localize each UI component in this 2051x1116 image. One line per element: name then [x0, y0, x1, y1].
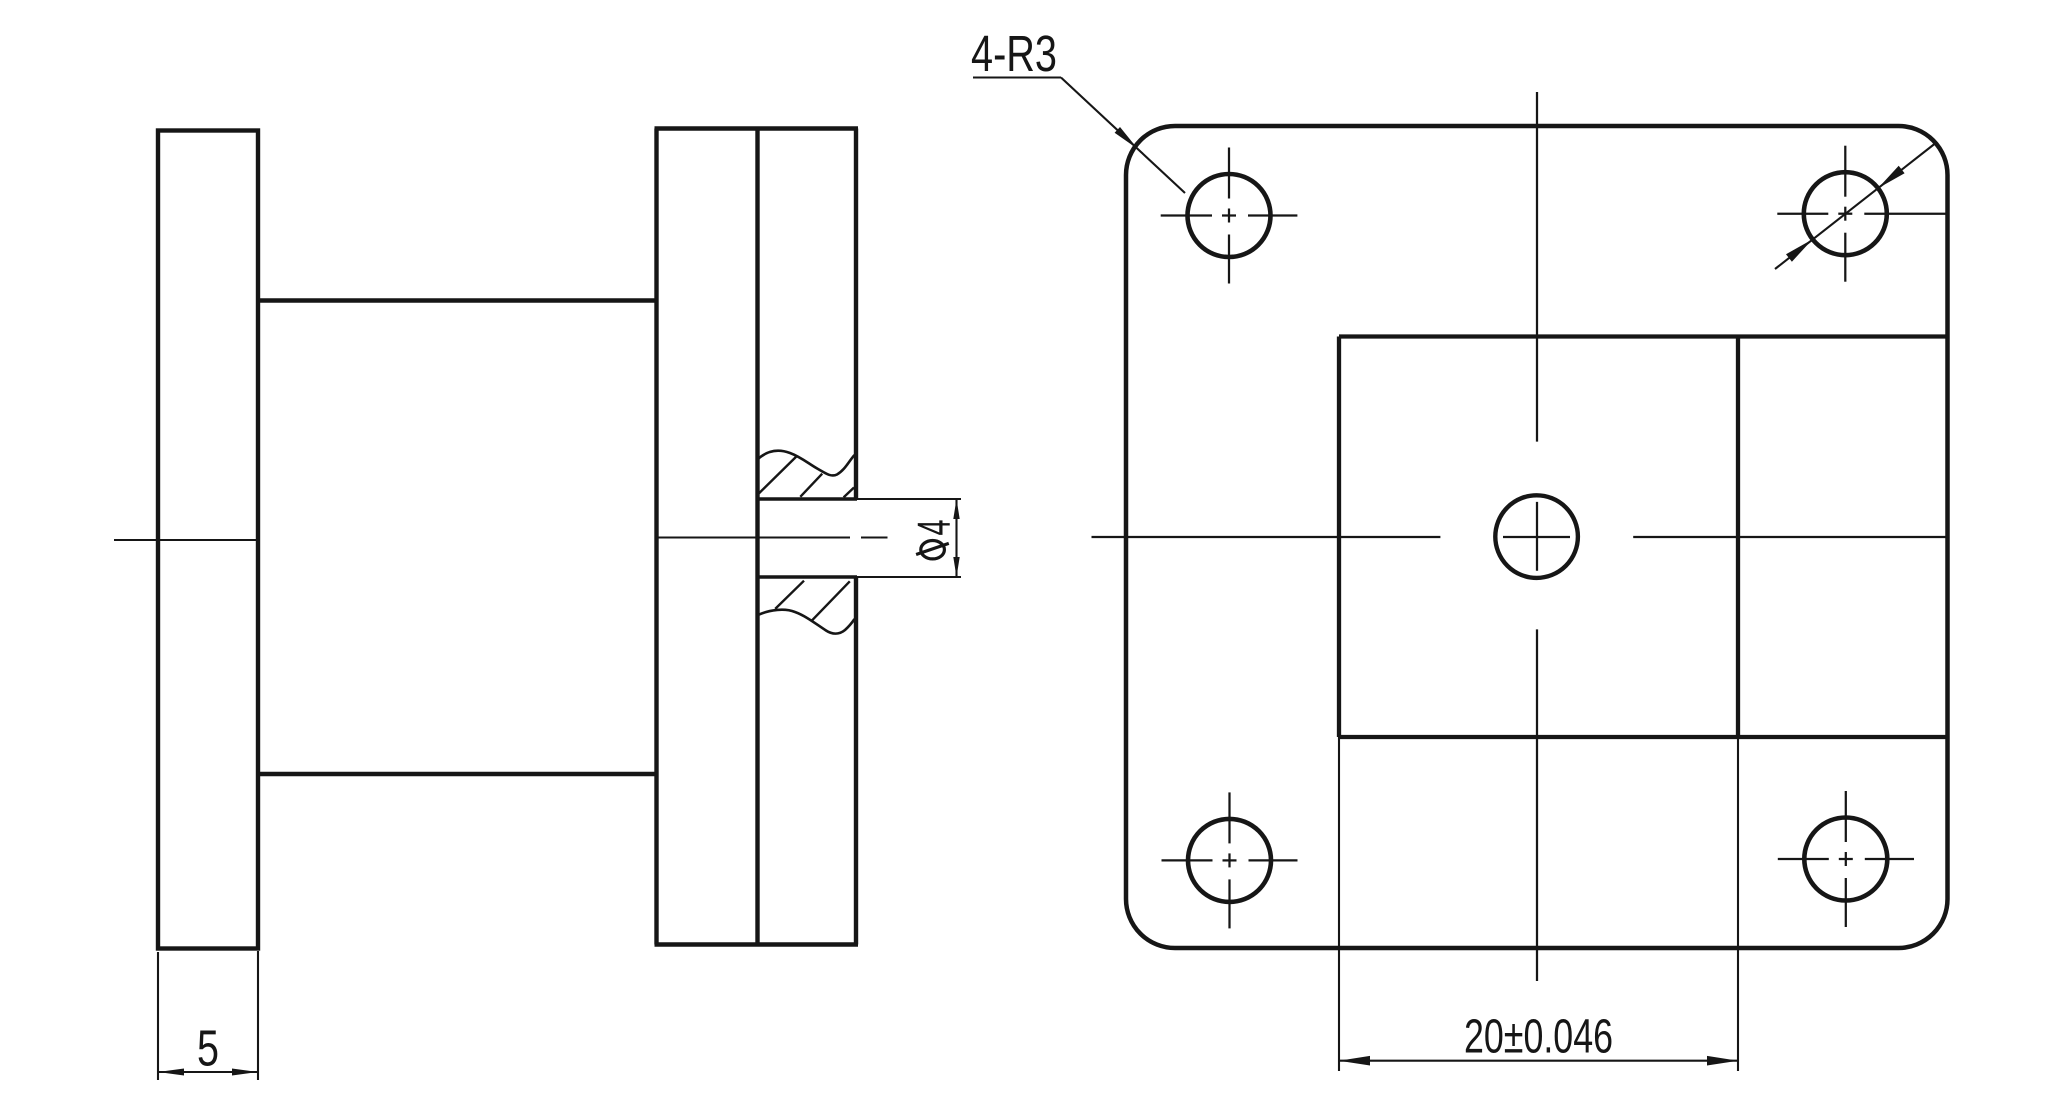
- svg-text:4-R3: 4-R3: [971, 25, 1057, 82]
- svg-text:4: 4: [908, 520, 960, 536]
- svg-text:20±0.046: 20±0.046: [1464, 1010, 1613, 1063]
- svg-text:5: 5: [197, 1020, 219, 1077]
